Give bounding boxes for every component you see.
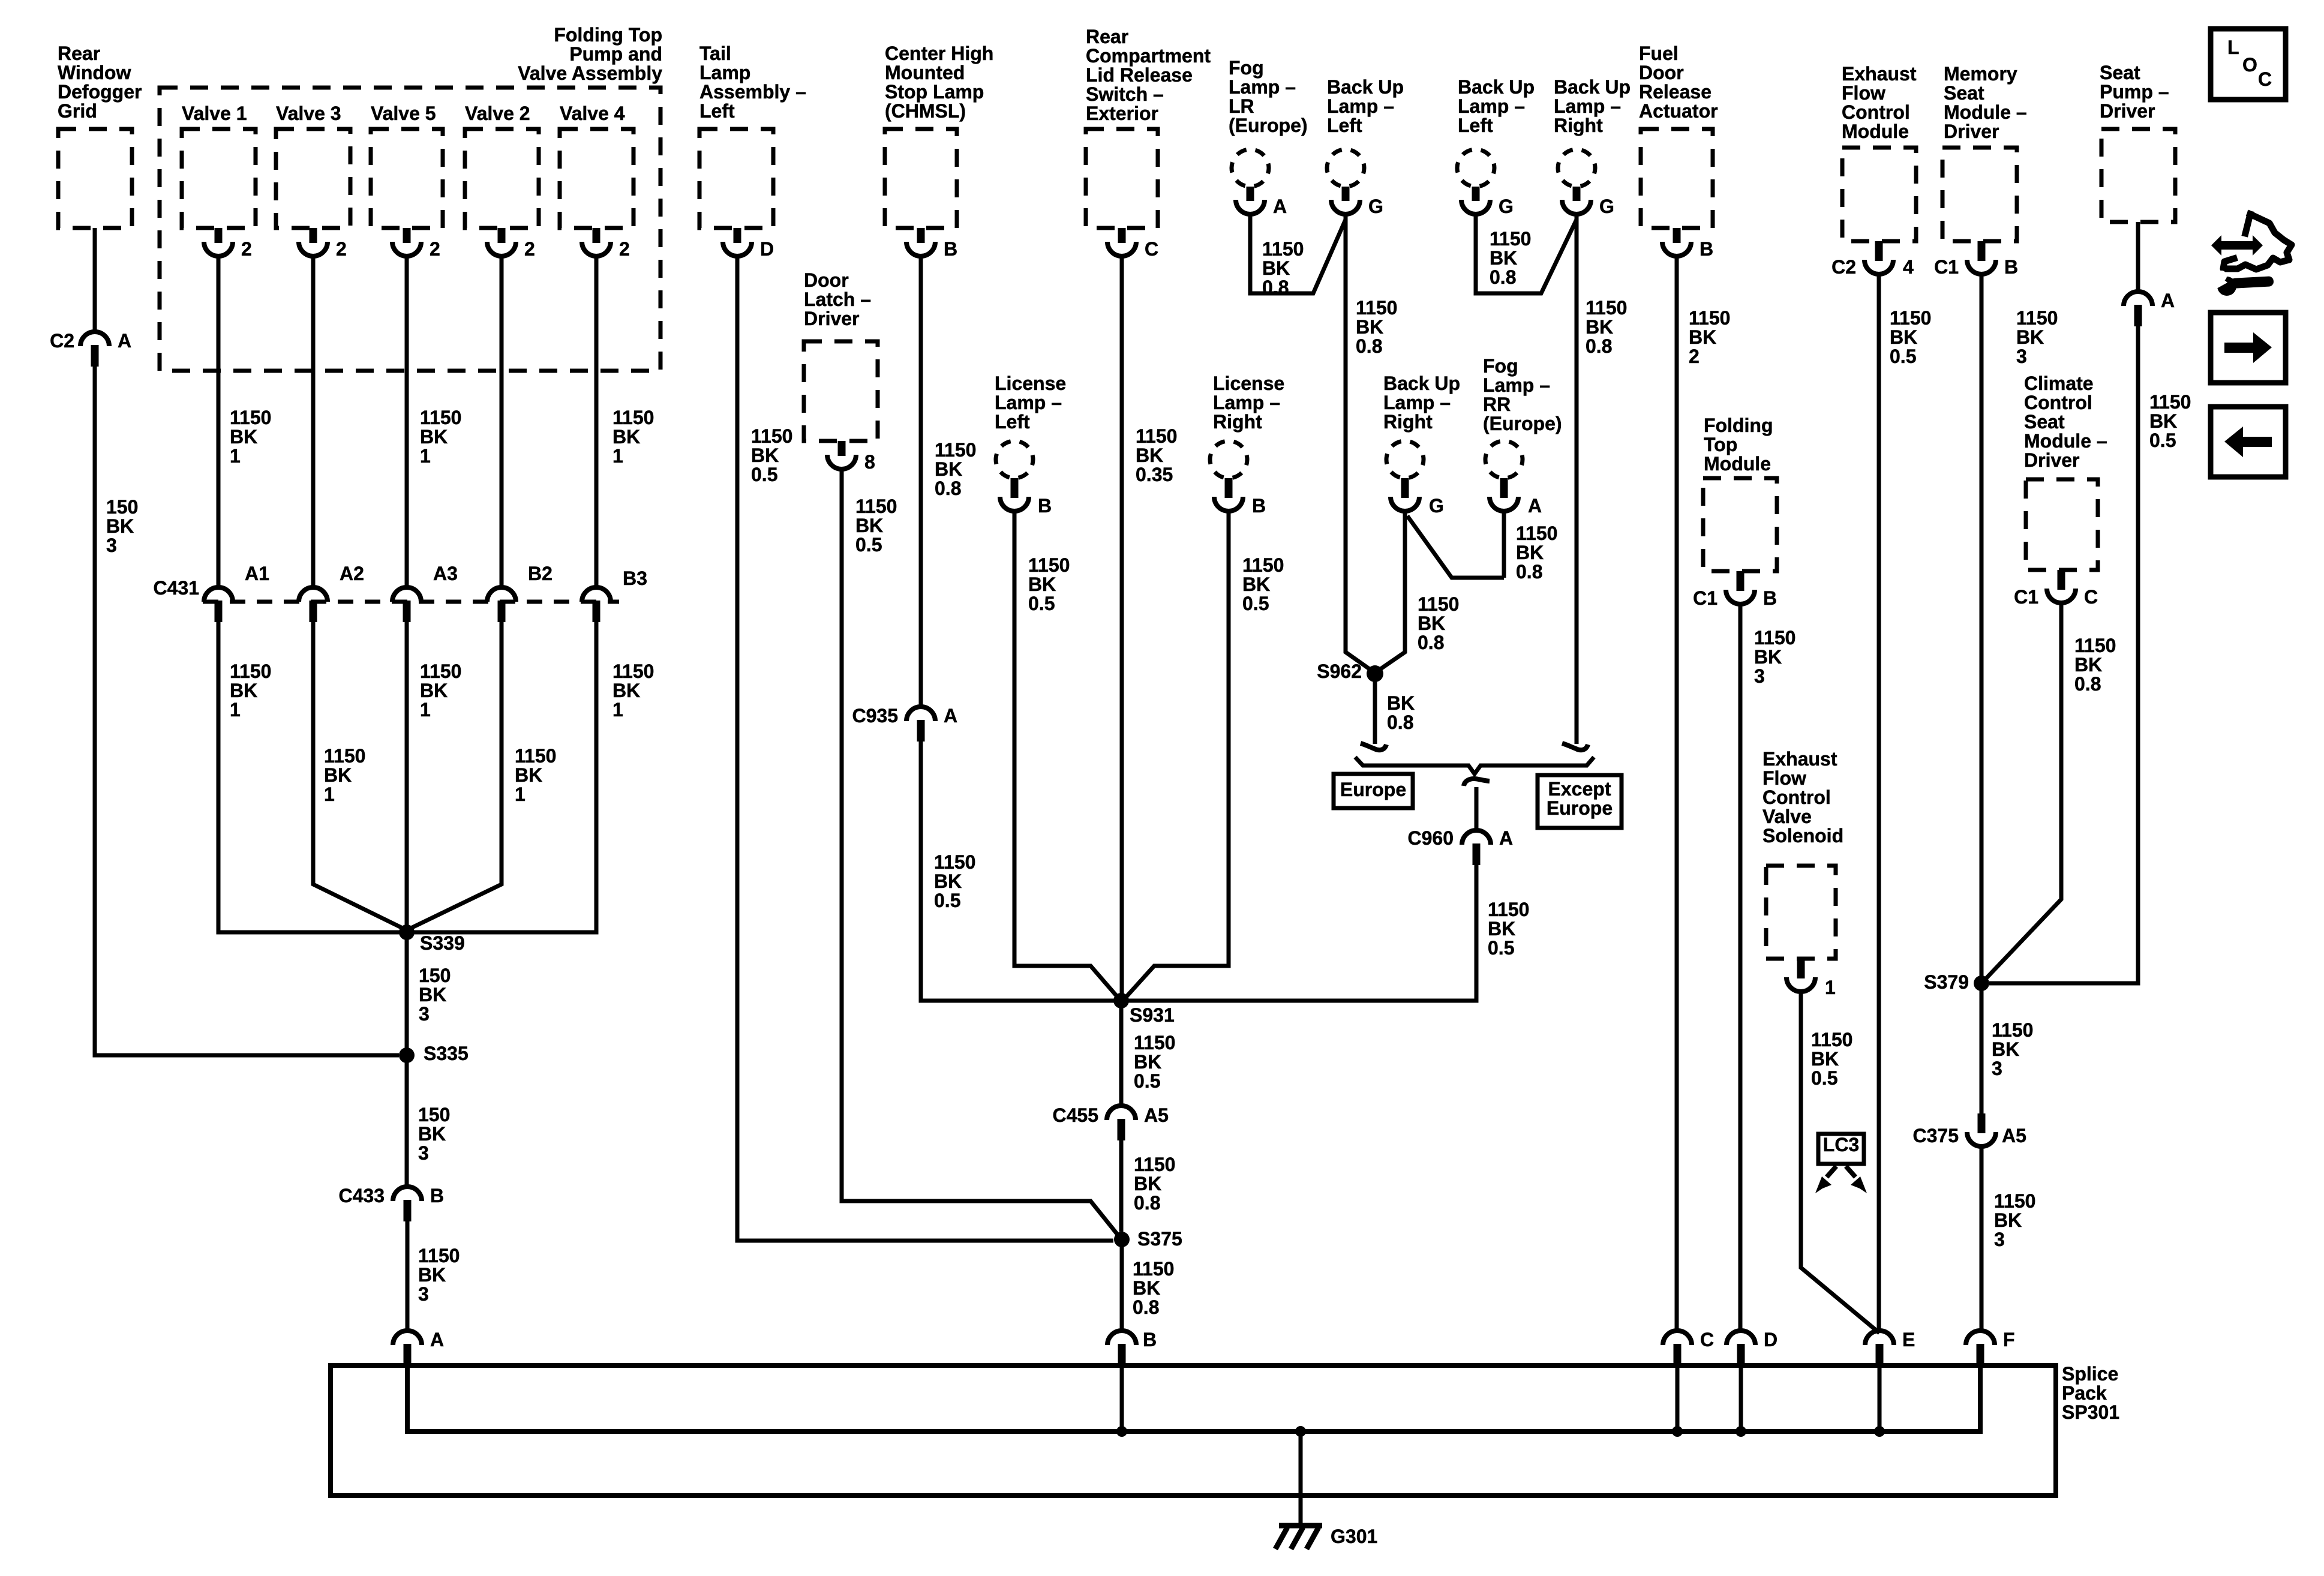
component Rear Window Defogger Grid (dashed box) [58,129,132,228]
svg-text:B2: B2 [528,563,553,584]
wire label 1150 BK 0.8 (fog LR) [1262,238,1304,298]
connector Tail Lamp pin D [723,228,752,256]
label Rear Window Defogger Grid [58,43,142,122]
svg-text:0.5: 0.5 [1488,937,1514,959]
svg-text:2: 2 [336,238,347,260]
svg-text:Tail: Tail [699,43,731,64]
wire label 1150 BK 3 (folding top) [1754,627,1795,687]
svg-text:BK: BK [1994,1209,2022,1231]
svg-text:S962: S962 [1317,661,1362,682]
svg-text:Valve: Valve [1762,806,1812,827]
svg-text:Valve 3: Valve 3 [276,103,341,124]
wire 1150 BK 1 B2 to S339 [411,622,502,928]
svg-text:Pump –: Pump – [2100,81,2169,103]
component Folding Top Pump and Valve Assembly (outer dashed box) [160,88,660,371]
svg-text:BK: BK [1242,574,1270,595]
svg-text:1150: 1150 [855,496,897,517]
svg-text:A5: A5 [2002,1125,2026,1146]
svg-text:BK: BK [1136,445,1163,466]
svg-text:BK: BK [751,445,779,466]
connector Back Up Lamp Right pin G [1562,187,1591,214]
wire D entry to bus [1739,1365,1743,1431]
svg-text:O: O [2242,54,2257,76]
wire label 1150 BK 0.5 (seat pump) [2149,391,2191,451]
svg-text:0.8: 0.8 [1516,561,1542,583]
svg-text:1150: 1150 [612,661,654,682]
svg-text:1150: 1150 [1689,307,1730,329]
svg-text:Pack: Pack [2062,1382,2107,1404]
connector Lid Release pin C [1107,228,1136,256]
svg-text:Climate: Climate [2024,373,2094,394]
wire 1150 BK 1 B3 to S339 [414,622,596,932]
svg-text:0.35: 0.35 [1136,464,1173,485]
svg-text:C1: C1 [2014,586,2038,608]
svg-text:Memory: Memory [1944,63,2017,85]
wire 150 BK 3 S335 to C433 [405,1055,409,1187]
wire 1150 BK 0.5 license left to S931 [1014,512,1118,997]
navigation box LC3 [1818,1134,1864,1164]
svg-text:Module –: Module – [2024,430,2107,452]
label pin B of Fuel Door [1700,238,1713,260]
svg-text:1150: 1150 [515,745,556,767]
connector Back Up Lamp Right lower pin G [1391,478,1419,511]
svg-text:BK: BK [420,426,448,448]
label Seat Pump - Driver [2100,62,2169,122]
svg-text:1150: 1150 [230,661,271,682]
svg-text:1150: 1150 [751,425,792,447]
component License Lamp - Right (dashed circle) [1210,441,1247,478]
svg-text:0.8: 0.8 [1133,1296,1159,1318]
component Tail Lamp Assembly - Left (dashed box) [699,129,773,228]
svg-text:BK: BK [855,515,883,536]
svg-text:Grid: Grid [58,100,97,122]
svg-text:3: 3 [1754,665,1765,687]
label pin B of CHMSL [944,238,957,260]
label Back Up Lamp - Right (lower) [1383,373,1460,433]
connector Door Latch pin 8 [827,441,856,469]
svg-text:1150: 1150 [1134,1032,1175,1053]
svg-text:D: D [1764,1329,1777,1350]
label Back Up Lamp - Left [1327,76,1404,136]
svg-text:F: F [2003,1329,2015,1350]
label Splice Pack SP301 [2062,1363,2119,1423]
label pin A of C935 [944,705,957,727]
icon vehicle with double arrow and wrench [2211,214,2292,296]
svg-text:A: A [118,330,131,352]
label pin B of License Lamp Left [1038,495,1052,517]
wire label 1150 BK 0.8 (CHMSL) [935,439,976,499]
splice S931 [1113,993,1129,1008]
connector Back Up Lamp Left second pin G [1461,187,1490,214]
svg-text:Right: Right [1213,411,1262,433]
svg-text:1150: 1150 [2016,307,2058,329]
svg-text:Fog: Fog [1229,57,1264,79]
wire label 1150 BK 1 (A2) [324,745,365,805]
wire label 1150 BK 0.5 (license right) [1242,554,1284,614]
label Door Latch - Driver [804,269,871,329]
icon arrow box left [2211,407,2286,477]
svg-text:Fuel: Fuel [1639,43,1679,64]
wire label 1150 BK 0.8 (backup left second) [1490,228,1531,288]
wire 1150 BK 0.8 CHMSL to C935 [919,256,923,707]
bus junction dot ground drop [1295,1426,1306,1437]
label entry A [430,1329,444,1350]
svg-text:150: 150 [419,965,451,986]
label pin 2 of Valve 4 [619,238,630,260]
connector Fog Lamp RR pin A [1490,478,1518,511]
svg-text:150: 150 [418,1104,450,1125]
label pin G of Back Up Lamp Right [1599,196,1614,217]
connector Climate Control C1 pin C [2047,570,2076,603]
svg-text:2: 2 [524,238,535,260]
svg-text:Module –: Module – [1944,101,2027,123]
svg-text:2: 2 [430,238,440,260]
label pin B of Folding Top Module [1763,587,1777,609]
svg-text:0.8: 0.8 [1490,266,1516,288]
svg-text:Defogger: Defogger [58,81,142,103]
connector Folding Top Module C1 pin B [1726,571,1755,604]
label License Lamp - Left [995,373,1066,433]
svg-text:A: A [944,705,957,727]
svg-text:BK: BK [1028,574,1056,595]
svg-text:Lamp –: Lamp – [1213,392,1280,413]
wire defogger to C2 [93,228,97,332]
svg-text:BK: BK [2074,654,2102,676]
svg-text:Seat: Seat [2024,411,2065,433]
label pin D [760,238,774,260]
svg-text:G: G [1368,196,1383,217]
svg-text:Top: Top [1704,434,1737,455]
svg-text:3: 3 [1992,1058,2002,1079]
svg-text:Lamp –: Lamp – [995,392,1062,413]
wire label 1150 BK 1 (B3) [612,661,654,721]
label pin G of Back Up Lamp Right lower [1429,495,1444,517]
svg-text:BK: BK [1356,316,1383,338]
svg-text:Window: Window [58,62,131,83]
svg-text:3: 3 [2016,346,2027,367]
connector Valve 2 pin 2 [487,228,516,256]
label pin C of Climate Control [2084,586,2098,608]
connector C431 pin A2 [299,587,328,622]
connector C2 pin A (inline) [80,332,109,367]
svg-text:0.5: 0.5 [855,534,882,556]
svg-text:Exterior: Exterior [1086,103,1158,124]
component Memory Seat Module (dashed box) [1942,148,2017,241]
label Folding Top Module [1704,415,1773,475]
connector Memory Seat Module C1 pin B [1967,241,1996,274]
svg-text:2: 2 [241,238,252,260]
svg-text:B: B [1252,495,1266,517]
svg-text:Control: Control [2024,392,2092,413]
svg-text:Solenoid: Solenoid [1762,825,1843,846]
bus junction dot E [1874,1426,1885,1437]
svg-text:Exhaust: Exhaust [1842,63,1917,85]
option output hook to C960 [1464,779,1490,786]
svg-text:A: A [1528,495,1542,517]
svg-text:1150: 1150 [420,661,461,682]
connector Exhaust Flow Control Module C2 pin 4 [1864,241,1893,274]
svg-text:BK: BK [1516,542,1544,563]
bus junction dot B [1116,1426,1127,1437]
svg-text:Control: Control [1762,787,1831,808]
component Fuel Door Release Actuator (dashed box) [1641,129,1713,228]
label C431 pin A1 [245,563,269,584]
svg-text:Door: Door [1639,62,1684,83]
svg-text:Back Up: Back Up [1458,76,1535,98]
svg-text:C433: C433 [339,1185,385,1206]
svg-text:4: 4 [1903,256,1914,278]
component Back Up Lamp Left second (dashed circle) [1457,149,1494,187]
wire Valve 3 to C431 A2 [311,256,316,587]
svg-text:B: B [430,1185,444,1206]
svg-text:B: B [1038,495,1052,517]
component Valve 5 (dashed box) [371,129,443,228]
component Rear Compartment Lid Release Switch (dashed box) [1086,129,1158,228]
svg-text:3: 3 [106,535,117,556]
wire 1150 BK 3 C433 to splice pack A [406,1221,410,1331]
wire 1150 BK 3 memory seat to S379 [1980,274,1984,983]
svg-text:0.5: 0.5 [2149,430,2176,451]
svg-text:1150: 1150 [934,851,975,873]
svg-text:Left: Left [1327,115,1362,136]
component Back Up Lamp Left (dashed circle) [1327,149,1364,187]
wire label 1150 BK 0.5 (below C960) [1488,899,1529,959]
option end hook (Europe wire) [1361,743,1386,750]
svg-text:0.5: 0.5 [1028,593,1055,614]
svg-text:BK: BK [230,680,257,701]
svg-text:Valve 4: Valve 4 [560,103,625,124]
svg-text:A: A [1499,827,1513,849]
LC3 arrow left [1827,1166,1836,1177]
label pin 2 of Valve 5 [430,238,440,260]
svg-text:Actuator: Actuator [1639,100,1718,122]
label pin 2 of Valve 1 [241,238,252,260]
wire 1150 BK 0.5 C935 to S931 [921,742,1114,1001]
svg-text:Lamp –: Lamp – [1229,76,1296,98]
label S962 [1317,661,1362,682]
svg-text:Lamp –: Lamp – [1327,95,1394,117]
component Fog Lamp RR Europe (dashed circle) [1485,441,1523,478]
connector C431 pin B3 [582,587,611,622]
label entry C [1700,1329,1714,1350]
svg-text:0.8: 0.8 [1586,335,1612,357]
svg-text:Valve 5: Valve 5 [371,103,436,124]
label Valve 1 [182,103,247,124]
svg-text:Folding: Folding [1704,415,1773,436]
splice pack entry connector A [393,1331,422,1365]
svg-text:S335: S335 [424,1043,469,1064]
wire label 150 BK 3 (below S339) [419,965,451,1025]
svg-text:Except: Except [1548,778,1611,800]
svg-text:C375: C375 [1913,1125,1959,1146]
svg-text:1: 1 [230,445,241,467]
label pin B of C433 [430,1185,444,1206]
component Exhaust Flow Control Valve Solenoid (dashed box) [1766,866,1836,959]
wire label 1150 BK 0.8 (climate control) [2074,635,2116,695]
svg-text:C2: C2 [1831,256,1856,278]
svg-text:1150: 1150 [1490,228,1531,250]
component Exhaust Flow Control Module (dashed box) [1842,148,1916,241]
svg-text:1150: 1150 [1890,307,1931,329]
label S375 [1137,1228,1182,1250]
svg-text:0.8: 0.8 [935,478,961,499]
label pin B of License Lamp Right [1252,495,1266,517]
splice pack internal bus wire [407,1367,1980,1431]
wire splice pack to ground G301 [1299,1431,1303,1526]
svg-text:A3: A3 [433,563,458,584]
svg-text:Flow: Flow [1762,767,1806,789]
splice S962 [1367,665,1383,682]
label pin A of Seat Pump [2161,290,2175,311]
svg-text:Flow: Flow [1842,82,1885,104]
svg-text:BK: BK [935,458,962,480]
svg-text:L: L [2227,37,2239,58]
svg-text:(Europe): (Europe) [1483,413,1562,434]
connector C375 pin A5 (inline) [1967,1113,1996,1146]
svg-text:RR: RR [1483,394,1511,415]
wire label 1150 BK 0.5 (below S931) [1134,1032,1175,1092]
svg-text:BK: BK [420,680,448,701]
wire label 1150 BK 0.8 (below C455) [1134,1154,1175,1214]
svg-text:BK: BK [1890,326,1917,348]
connector C433 pin B (inline) [393,1187,422,1221]
svg-text:1150: 1150 [1133,1258,1174,1280]
svg-text:BK: BK [612,426,640,448]
svg-text:1150: 1150 [1418,593,1459,615]
svg-text:1: 1 [420,699,431,721]
connector Valve 1 pin 2 [204,228,233,256]
label C1 of Climate Control [2014,586,2038,608]
component Valve 4 (dashed box) [560,129,633,228]
wire B entry to bus [1120,1365,1124,1431]
component Fog Lamp LR Europe (dashed circle) [1232,149,1269,187]
svg-text:3: 3 [419,1003,430,1025]
splice S339 [399,924,415,940]
svg-text:Door: Door [804,269,849,291]
label Back Up Lamp - Left (second) [1458,76,1535,136]
svg-text:Exhaust: Exhaust [1762,748,1837,770]
wire 1150 BK 0.5 S931 to C455 [1119,1001,1124,1106]
wire 1150 BK 0.8 fog RR down [1502,512,1506,578]
svg-text:1: 1 [1825,977,1836,998]
svg-text:Splice: Splice [2062,1363,2118,1385]
label C960 [1408,827,1454,849]
label C431 pin B2 [528,563,553,584]
svg-text:BK: BK [1586,316,1613,338]
component Valve 3 (dashed box) [276,129,350,228]
svg-text:Switch –: Switch – [1086,83,1164,105]
svg-text:C1: C1 [1693,587,1718,609]
svg-text:150: 150 [106,496,138,518]
wire 1150 BK 0.8 climate control to S379 [1981,603,2061,983]
wire label 1150 BK 0.5 (exhaust module) [1890,307,1931,367]
label Valve 2 [465,103,530,124]
splice pack entry connector C [1663,1331,1692,1365]
svg-text:BK: BK [515,764,542,786]
svg-text:Europe: Europe [1340,779,1406,800]
wire label 1150 BK 0.8 (below S375) [1133,1258,1174,1318]
component Back Up Lamp Right lower (dashed circle) [1386,441,1424,478]
svg-text:Europe: Europe [1547,797,1613,819]
label pin C of Lid Release [1145,238,1158,260]
label Folding Top Pump and Valve Assembly [518,24,662,84]
svg-text:C1: C1 [1934,256,1959,278]
svg-text:Right: Right [1554,115,1603,136]
svg-text:0.5: 0.5 [751,464,777,485]
label C455 [1053,1104,1099,1126]
svg-text:1150: 1150 [230,407,271,428]
svg-text:BK: BK [1134,1051,1161,1073]
component CHMSL (dashed box) [885,129,957,228]
svg-text:Rear: Rear [58,43,100,64]
svg-text:Control: Control [1842,101,1910,123]
svg-text:1150: 1150 [1028,554,1070,576]
label G301 [1331,1526,1377,1547]
label pin A5 of C455 [1144,1104,1169,1126]
svg-text:D: D [760,238,774,260]
label C431 [154,577,200,599]
label S379 [1924,971,1969,993]
svg-text:0.5: 0.5 [1134,1070,1160,1092]
wire 1150 BK 0.8 backup right to Except Europe option [1575,215,1579,744]
wire 1150 BK 0.5 exhaust module to splice pack E [1877,274,1881,1331]
option end hook (Except Europe wire) [1562,743,1588,750]
svg-text:1150: 1150 [1488,899,1529,920]
svg-text:1150: 1150 [1811,1029,1852,1050]
wire 1150 BK 1 A1 to S339 [218,622,400,932]
svg-text:1150: 1150 [1754,627,1795,649]
svg-text:A2: A2 [340,563,364,584]
svg-text:0.8: 0.8 [1418,632,1444,653]
svg-text:SP301: SP301 [2062,1401,2119,1423]
svg-text:0.5: 0.5 [1890,346,1916,367]
label pin A of Fog Lamp RR [1528,495,1542,517]
label Fog Lamp - LR (Europe) [1229,57,1308,136]
svg-text:BK: BK [1811,1048,1839,1070]
wire label 1150 BK 0.8 (backup left) [1356,297,1397,357]
svg-text:0.8: 0.8 [1356,335,1382,357]
svg-text:Module: Module [1842,121,1909,142]
svg-text:1150: 1150 [1356,297,1397,319]
label C935 [852,705,899,727]
wire label 150 BK 3 (defogger) [106,496,138,556]
label Fog Lamp - RR (Europe) [1483,355,1562,434]
svg-text:1150: 1150 [420,407,461,428]
label C1 of Memory Seat [1934,256,1959,278]
option label box Europe [1334,774,1413,808]
svg-text:C: C [2258,68,2272,90]
svg-text:Module: Module [1704,453,1771,475]
label Fuel Door Release Actuator [1639,43,1718,122]
label pin A [118,330,131,352]
label pin 2 of Valve 3 [336,238,347,260]
svg-text:BK: BK [1262,257,1290,279]
svg-text:BK: BK [1133,1277,1160,1299]
wire joining fog RR to backup right lower [1407,516,1504,578]
svg-text:3: 3 [418,1142,429,1164]
svg-text:C960: C960 [1408,827,1454,849]
wire Valve 1 to C431 A1 [217,256,221,587]
wire 1150 BK 0.8 backup right lower to S962 [1378,512,1405,671]
LC3 arrow right [1846,1166,1855,1177]
svg-text:1: 1 [612,699,623,721]
wire label 1150 BK 0.5 (license left) [1028,554,1070,614]
connector Seat Pump pin A [2124,292,2152,326]
splice S375 [1114,1232,1130,1247]
wire option output to C960 [1475,787,1479,830]
svg-text:1150: 1150 [2149,391,2191,413]
svg-text:2: 2 [1689,346,1700,367]
